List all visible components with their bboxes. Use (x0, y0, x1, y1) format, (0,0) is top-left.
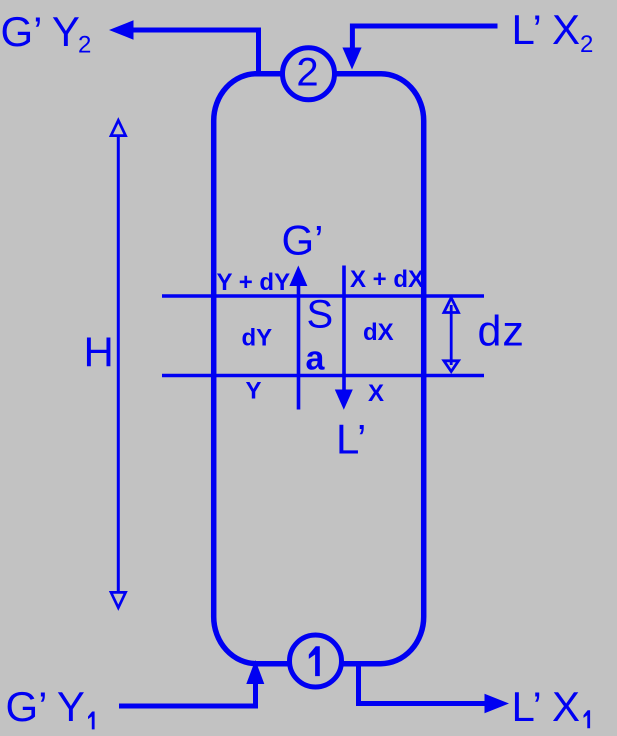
label 1 (309, 646, 320, 676)
stage circle 2 (283, 48, 335, 100)
stream L'X1 wire (359, 663, 510, 713)
svg-text:dX: dX (363, 319, 394, 346)
differential slice bottom line (162, 374, 484, 378)
svg-text:a: a (306, 340, 326, 378)
svg-text:L’ X: L’ X (512, 683, 581, 730)
dimension dz (444, 298, 459, 372)
column vessel (214, 74, 424, 664)
svg-text:2: 2 (296, 51, 318, 95)
svg-text:X: X (368, 380, 384, 407)
dimension H line (111, 120, 126, 607)
stage circle 1 (290, 635, 342, 687)
svg-text:G’: G’ (282, 217, 324, 264)
svg-text:dY: dY (242, 325, 273, 352)
svg-text:G’ Y: G’ Y (1, 8, 80, 55)
svg-text:2: 2 (580, 31, 593, 58)
svg-text:Y + dY: Y + dY (217, 269, 291, 296)
svg-text:L’ X: L’ X (512, 6, 581, 53)
svg-text:2: 2 (78, 32, 91, 59)
svg-text:H: H (84, 329, 114, 376)
stream G'Y2 wire (109, 20, 259, 71)
differential slice top line (162, 294, 484, 298)
svg-text:G’ Y: G’ Y (6, 683, 85, 730)
stream L'X2 wire (342, 26, 497, 70)
liquid flow arrow L' (down) (335, 266, 353, 410)
svg-text:Y: Y (246, 378, 262, 405)
svg-text:X + dX: X + dX (350, 266, 424, 293)
svg-text:S: S (307, 293, 334, 337)
stream G'Y1 wire (119, 660, 264, 706)
gas flow arrow G' (up) (289, 266, 307, 410)
svg-text:L’: L’ (336, 416, 366, 463)
svg-text:dz: dz (478, 308, 525, 356)
